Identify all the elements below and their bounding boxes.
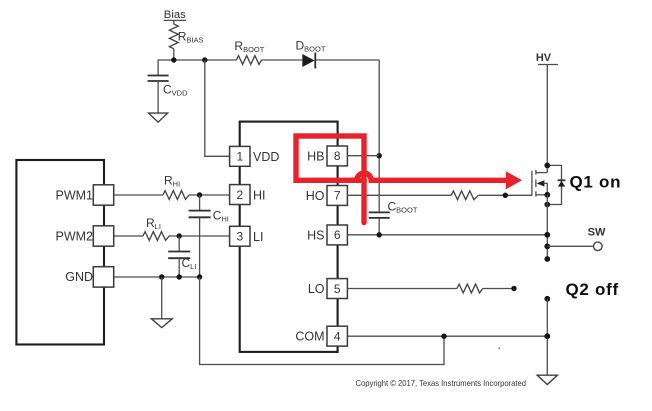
svg-text:3: 3 (236, 230, 243, 244)
svg-text:HS: HS (307, 229, 324, 243)
junction dot Q2 drain stub (544, 256, 550, 262)
wire HO (347, 194, 532, 196)
svg-text:HV: HV (536, 52, 552, 64)
svg-text:Copyright © 2017, Texas Instru: Copyright © 2017, Texas Instruments Inco… (356, 378, 527, 388)
svg-text:7: 7 (334, 189, 341, 203)
svg-text:2: 2 (236, 188, 243, 202)
node SW (547, 227, 606, 251)
svg-text:HO: HO (306, 189, 325, 203)
junction dot SW branch (544, 243, 550, 249)
svg-text:4: 4 (334, 329, 341, 343)
svg-text:8: 8 (334, 149, 341, 163)
svg-text:CHI: CHI (213, 209, 229, 224)
wire LO (347, 288, 514, 290)
junction dot COM rail (544, 333, 550, 339)
ground CVDD (149, 113, 168, 122)
pin 3 LI (230, 226, 264, 246)
svg-text:GND: GND (65, 270, 93, 284)
capacitor CHI (189, 195, 229, 277)
wire HB (347, 155, 379, 157)
svg-text:Q2 off: Q2 off (566, 280, 619, 299)
wire PWM1 to HI (114, 194, 230, 196)
junction dot Q1 drain (544, 163, 550, 169)
wire GND (114, 276, 200, 278)
junction dot CBOOT/HS (377, 232, 382, 237)
junction dot LO end (511, 286, 516, 291)
annotation red vertical line (361, 180, 366, 223)
diode DBOOT (296, 39, 326, 69)
pin 6 HS (307, 225, 347, 245)
svg-text:PWM1: PWM1 (56, 189, 94, 203)
controller box (16, 160, 104, 345)
svg-text:RBIAS: RBIAS (178, 30, 204, 45)
svg-text:Bias: Bias (164, 9, 186, 21)
junction dot CLI gnd (177, 274, 182, 279)
junction dot Q2 source stub (544, 296, 550, 302)
svg-text:RHI: RHI (164, 174, 180, 189)
junction dot gnd branch (159, 274, 164, 279)
svg-text:SW: SW (588, 227, 606, 239)
pin GND (65, 267, 113, 287)
wire HS (347, 234, 547, 236)
svg-text:LO: LO (308, 282, 325, 296)
stray mark (498, 347, 500, 349)
wire HV rail (546, 65, 548, 173)
pin 5 LO (308, 279, 348, 299)
pin PWM1 (56, 185, 114, 205)
junction dot COM return (441, 334, 446, 339)
pin PWM2 (56, 226, 114, 246)
resistor RBIAS (169, 20, 203, 60)
wire SW rail lower (546, 299, 548, 375)
svg-text:CVDD: CVDD (163, 83, 188, 98)
svg-text:LI: LI (253, 230, 263, 244)
pin 8 HB (307, 146, 347, 166)
resistor RBOOT (234, 39, 264, 64)
svg-text:HB: HB (307, 150, 324, 164)
pin 1 VDD (230, 146, 280, 166)
junction dot VDD branch (202, 57, 207, 62)
junction dot RBIAS node (171, 57, 176, 62)
wire bias rail (158, 60, 379, 76)
svg-text:CBOOT: CBOOT (388, 200, 418, 215)
svg-text:RBOOT: RBOOT (234, 39, 264, 54)
capacitor CLI (168, 236, 196, 277)
resistor HO gate (451, 191, 478, 200)
svg-text:6: 6 (334, 228, 341, 242)
resistor RLI (143, 216, 169, 240)
pin 2 HI (230, 185, 266, 205)
wire GND return to COM (200, 277, 444, 365)
capacitor CVDD (148, 76, 188, 114)
ground power (537, 375, 557, 384)
node HV (536, 52, 558, 65)
resistor LO gate (457, 284, 483, 293)
wire PWM2 to LI (114, 235, 230, 237)
svg-text:Q1 on: Q1 on (570, 173, 622, 192)
wire SW rail upper (546, 195, 548, 259)
svg-text:PWM2: PWM2 (56, 229, 94, 243)
pin 4 COM (295, 326, 347, 346)
svg-text:HI: HI (253, 189, 266, 203)
svg-text:DBOOT: DBOOT (296, 39, 326, 54)
resistor RHI (163, 174, 189, 200)
capacitor CBOOT (369, 200, 418, 235)
junction dot HS rail (544, 232, 550, 238)
junction dot Q1 source b (544, 202, 550, 208)
IC U1 body (240, 122, 338, 352)
ground logic (151, 319, 172, 328)
junction dot HB node (377, 153, 382, 158)
svg-text:VDD: VDD (253, 150, 279, 164)
junction dot CHI gnd (197, 274, 202, 279)
junction dot gate node (503, 193, 508, 198)
svg-text:RLI: RLI (146, 216, 161, 231)
wire gnd stub (161, 277, 163, 319)
transistor Q1 (532, 165, 566, 204)
junction dot HI/CHI (197, 192, 202, 197)
node Bias (164, 9, 186, 21)
svg-text:5: 5 (334, 282, 341, 296)
svg-text:CLI: CLI (182, 256, 197, 271)
junction dot Q1 source a (544, 192, 550, 198)
wire COM (347, 335, 547, 337)
svg-text:COM: COM (295, 330, 324, 344)
annotation red box HB (296, 136, 364, 180)
svg-text:1: 1 (236, 150, 243, 164)
pin 7 HO (306, 186, 348, 206)
wire VDD to pin1 (205, 60, 230, 156)
wire DBOOT to HB node (378, 60, 380, 212)
annotation red arrow to Q1 (350, 171, 522, 189)
junction dot LI/CLI (177, 233, 182, 238)
